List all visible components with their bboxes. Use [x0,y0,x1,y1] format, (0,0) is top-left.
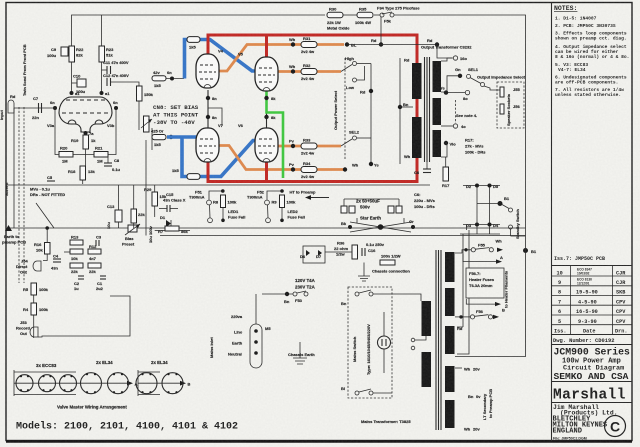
wire grid V7 link [208,108,222,126]
wire blue phase link bottom [182,137,258,177]
node Rd mid [369,89,373,93]
node Rd transformer top [435,42,439,46]
address block [553,404,626,441]
diode D2 [475,184,479,188]
capacitor C1 [96,276,106,291]
wire R23 drop [101,15,103,47]
wire cathode link right [266,90,268,128]
wires grid bias returns [55,110,59,155]
node a1 right [100,91,104,95]
diode bridge D2-D5 [460,184,500,235]
revision table [552,266,633,335]
wire HT black rail under red [310,184,430,186]
MT core [436,250,441,430]
resistor R20 [59,146,73,164]
switch top contacts [355,290,392,296]
valve V7 EL34 [196,123,224,162]
wire cathode to rail [85,149,87,168]
standby switch [502,205,526,237]
grid node right [114,106,118,110]
wire red stub V5 [265,35,268,58]
capacitor 50uF b [349,206,355,213]
node grid stopper [170,77,174,81]
capacitor bias 10u [146,225,153,243]
wire red HT loop [208,35,417,182]
node Bn mains [285,292,289,296]
effects row wires [43,254,47,261]
wire to lower rail [82,180,84,184]
valve V4 EL34 [196,49,224,89]
valve base ECC83 a [16,375,33,392]
wire R24 down [138,101,140,130]
resistor 1k5 grid stopper top [187,37,200,50]
wire grid feed row [111,82,140,86]
resistor R17 [442,157,450,188]
node Vio [441,141,456,157]
input wire [14,107,53,109]
diode D4 [488,223,492,227]
fuse F51 [189,189,225,223]
node 8n lower left [206,115,210,119]
input jack [8,94,16,113]
switch High contact [341,56,371,72]
resistor R34 [301,161,317,179]
wire to 16 ohm tap [437,45,452,59]
chassis connection [358,263,410,282]
resistor R24 [137,86,154,101]
wire heater feed B [466,299,505,313]
node a1 left [70,91,74,95]
wire orange anode V7 to R34 [215,146,345,170]
terminal 4 ohm [441,124,466,129]
resistor R11 [70,263,83,274]
capacitor 50uF c [388,206,394,213]
series title box [552,347,633,383]
capacitor C13 [106,185,122,229]
earth diagonal wire [36,203,54,228]
bias preset [122,224,140,247]
node row4 end [343,167,347,171]
terminal 16 ohm [441,56,467,61]
chassis earth [288,342,315,364]
wire R30-R35 [343,14,357,16]
switch SEL2 contact [341,130,371,147]
OT core [425,57,430,162]
notes divider line [551,3,553,266]
resistor R22 [69,46,84,62]
OT secondary winding 3 [433,130,442,157]
OT secondary winding 1 [433,61,442,92]
cathode wire [84,131,95,136]
capacitor C3 [96,235,102,247]
MT primary winding lower [422,352,432,387]
wire fuse to standby feed [394,15,526,193]
mains feed top wire [262,293,293,295]
node Gn / SEL1 switch [441,67,485,92]
inlet wires [255,294,257,324]
MT LT winding 1 [445,366,455,392]
wire heater feed A [463,254,503,264]
wire C10 row [72,82,78,84]
bias feed vertical [145,140,147,232]
MT HT winding [445,326,455,354]
diode D3 [475,223,479,227]
capacitor C12 [103,73,129,86]
resistor R4 [23,303,49,338]
heater chain line B [138,370,191,396]
capacitor C16 [362,242,385,256]
capacitor C6 snubber [414,162,431,175]
switch bottom contacts [355,389,392,395]
resistor R31 [301,36,317,54]
valve base EL34 d [162,373,183,394]
earth to preamp label [2,225,26,245]
resistor R23 [99,46,114,62]
HT to preamp arrow [290,189,330,200]
wire C11 row [102,69,108,71]
node Ye bottom [369,162,373,166]
OT primary winding lower [412,117,422,158]
wire caps top [344,198,399,200]
record out wire [38,296,130,337]
valve V6 EL34 [238,123,278,162]
resistor R8 [213,195,237,222]
capacitor C7 [32,96,42,120]
valve base EL34 a [81,373,102,394]
wire sel1 to sockets [484,86,500,90]
MT primary wires [392,294,421,301]
wire centre tap feed [398,58,413,164]
HT rail top left [72,15,326,47]
jack J53 record out [16,320,38,337]
diode D1 [160,215,171,227]
wire BL-Rd row [349,44,437,46]
wire blue grid drive bottom-left [167,135,199,139]
bias pot 47k [141,116,152,132]
node Wh row1 [291,42,295,46]
left feed wire [13,108,15,228]
capacitor C4 [51,254,61,271]
wire red stub V6 [265,161,268,182]
terminal 8 ohm [440,86,470,102]
OT primary winding upper [412,63,422,99]
MT primary taps [411,336,426,350]
resistor R30 [327,7,350,31]
resistor R36 [334,241,358,260]
HT rail rectifier rail [8,227,526,229]
resistor R28 [131,185,145,228]
OT secondary winding 2 [433,98,442,125]
wire orange anode V4 to R31 [216,45,344,72]
diode D5 [488,184,492,188]
output power select dashed boundary [344,58,346,160]
node bias [169,135,173,139]
copyright symbol [605,416,626,437]
speaker sockets box [497,82,524,128]
star earth crossing wires [350,218,411,232]
resistor R9 [272,195,297,222]
valve base EL34 b [108,373,129,394]
jack J55 [500,87,520,97]
dashed tap line [455,100,457,123]
resistor R18 [68,166,95,180]
resistor R14 [88,263,101,274]
valve base ECC83 c [60,375,77,392]
LED1 fuse fail [228,209,245,219]
wire blue grid drive top [185,40,257,79]
capacitor C2 [74,276,84,291]
wire green screen [267,91,284,178]
node Rd fuse [379,42,383,46]
wire orange anode V6 to R33 [276,145,341,148]
wire 1k5 to blue [166,78,184,80]
capacitor C5 [47,175,55,181]
wire Rd drop [380,17,382,45]
resistor R12 [88,244,101,261]
LT secondary taps [455,367,481,432]
MT heater winding 2 [445,288,455,316]
resistor R25 bias 1k5 [151,129,166,148]
wire select bus [370,64,372,165]
star earth node [341,216,415,233]
LED2 fuse fail [288,209,305,219]
wire anode drops [71,62,73,93]
wire standby feed lower [455,193,526,357]
node B1 standby [498,201,503,206]
resistor R5 [23,283,49,303]
MT LT winding 2 [445,400,455,428]
effects cluster wires [64,251,70,253]
capacitor 50uF d [396,199,402,213]
resistor R26 1k5 [152,70,172,88]
node BL [345,42,349,46]
heater chain line A [14,370,138,396]
node 8k upper right [264,96,268,100]
fuse F53 [293,291,308,303]
resistor R35 [355,7,373,26]
snubber wires [325,251,352,253]
resistor R7 [155,226,190,234]
heater fuses note box [466,268,504,298]
jack J56 [500,104,520,114]
wire bridge to HT secondary [457,225,469,355]
capacitor C15 [159,192,186,212]
resistor 1k5 grid stopper bottom [172,168,200,179]
twin screened cable dashed [19,107,24,283]
title block outline [551,266,553,442]
fuse F55 [455,239,503,254]
resistor 100n [380,254,401,266]
node 8k lower right [264,115,268,119]
fuse F56 [455,309,499,319]
neon lamp [378,312,391,373]
snubber box D6 D7 [300,246,325,263]
MT heater winding 1 [445,252,455,282]
node Pv row3 [291,144,295,148]
grid node left [53,106,57,110]
capacitor C11 [103,60,129,74]
mains switch dashed box [348,287,392,398]
node B1 right [523,248,528,253]
valve V3 ECC83 envelope [47,97,115,132]
resistor R16 [34,226,50,254]
jack J54 direct out [16,259,41,275]
valve base ECC83 b [39,375,56,392]
wire cathode link left [207,90,209,128]
node Wh row2 [291,69,295,73]
mains inlet [228,314,271,368]
capacitor C9 [47,47,68,58]
capacitor 50uF a [341,199,347,213]
resistor R33 [301,138,317,156]
wire orange anode V5 to R32 [276,70,341,73]
resistor R19 [71,135,96,149]
switch Low contact [346,66,365,90]
fuse F52 [247,189,284,223]
resistor R10 [70,249,83,261]
node 8n upper left [206,96,210,100]
resistor R13 [70,235,83,246]
resistor R32 [301,63,317,81]
capacitor C8 [104,155,121,173]
MT primary winding upper [422,301,432,336]
capacitor C10 [73,74,86,95]
lower distribution rail [8,184,310,186]
fuse F34 [374,6,420,24]
valve base EL34 c [136,373,157,394]
resistor R21 [94,146,108,164]
bias box line [151,128,153,150]
resistor R29 [144,185,167,217]
valve V5 EL34 [238,52,278,92]
node Pv row4 [291,167,295,171]
